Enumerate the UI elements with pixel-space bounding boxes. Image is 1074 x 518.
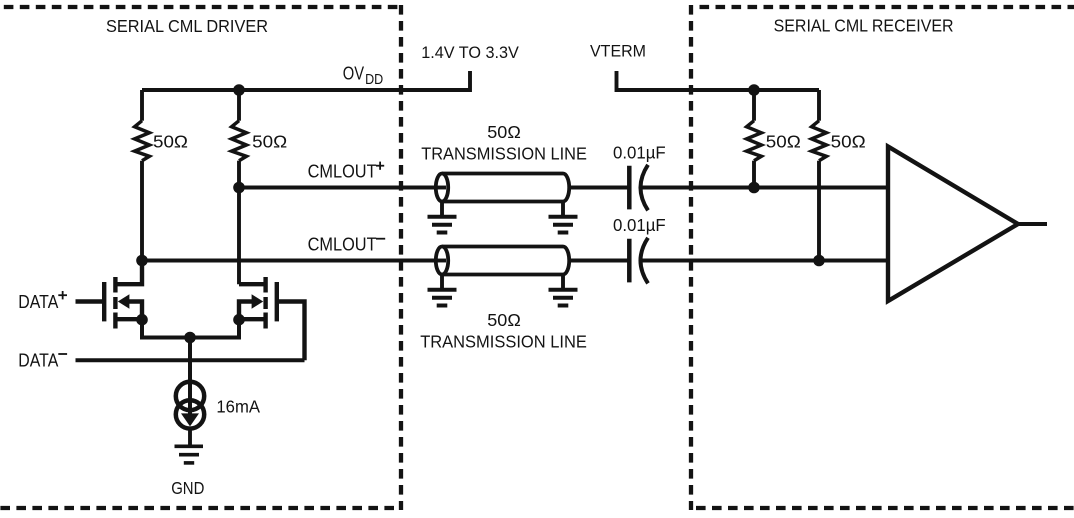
ground GND: [175, 446, 204, 463]
label OVDD: [343, 63, 383, 89]
svg-text:GND: GND: [171, 478, 204, 498]
resistor R2 50Ω: [237, 90, 241, 121]
current source I1: [176, 382, 204, 429]
svg-text:16mA: 16mA: [216, 397, 260, 417]
ground T2 right: [561, 275, 565, 289]
Q2 source lead: [239, 317, 266, 321]
svg-text:SERIAL CML RECEIVER: SERIAL CML RECEIVER: [774, 16, 954, 36]
wire VTERM rail: [617, 71, 820, 90]
driver box border: [0, 5, 401, 510]
capacitor C1 0.01µF: [627, 166, 632, 210]
Q2 gate lead: [277, 302, 305, 361]
wire common source to current sink: [188, 338, 192, 414]
wire DATA+: [76, 299, 105, 303]
op-amp U1 receiver amplifier: [888, 147, 1018, 302]
svg-text:DATA: DATA: [18, 292, 58, 312]
Q2 drain lead: [239, 282, 266, 286]
svg-text:TRANSMISSION LINE: TRANSMISSION LINE: [420, 332, 587, 352]
svg-text:0.01µF: 0.01µF: [613, 143, 666, 163]
capacitor C2 0.01µF: [627, 239, 632, 283]
Q2 channel segments: [263, 277, 267, 293]
wire source bus: [142, 320, 239, 338]
node OVDD/R2 junction: [233, 84, 245, 96]
resistor R4 50Ω: [817, 90, 821, 121]
ground T1 left: [440, 202, 444, 216]
Q2 body arrow: [252, 294, 264, 308]
node VTERM/R3 junction: [748, 84, 760, 96]
current source arrow head: [181, 413, 199, 426]
node Q2 source/body junction: [233, 314, 245, 326]
wire CMLOUT−: [142, 259, 436, 263]
node R1/CMLOUT−/Q1 drain junction: [136, 255, 148, 267]
svg-text:50Ω: 50Ω: [487, 310, 521, 330]
wire output: [1018, 222, 1047, 226]
svg-text:50Ω: 50Ω: [766, 132, 801, 152]
transmission line T1: [436, 174, 569, 202]
transistor Q2: [239, 277, 305, 360]
svg-text:0.01µF: 0.01µF: [613, 215, 666, 235]
svg-text:DD: DD: [365, 72, 383, 88]
svg-text:VTERM: VTERM: [590, 42, 646, 61]
node R3/CMLOUT+ junction: [748, 182, 760, 194]
svg-text:50Ω: 50Ω: [252, 132, 287, 152]
svg-text:CMLOUT: CMLOUT: [308, 162, 377, 182]
ground T1 right: [561, 202, 565, 216]
svg-text:50Ω: 50Ω: [831, 132, 866, 152]
node R4/CMLOUT− junction: [813, 255, 825, 267]
svg-text:50Ω: 50Ω: [487, 122, 521, 142]
wire stub into T2 left ellipse: [436, 259, 446, 263]
transmission line T2: [436, 247, 569, 275]
Q1 drain lead: [115, 261, 142, 285]
svg-text:CMLOUT: CMLOUT: [308, 234, 377, 254]
svg-text:1.4V TO 3.3V: 1.4V TO 3.3V: [421, 43, 519, 62]
svg-text:TRANSMISSION LINE: TRANSMISSION LINE: [421, 143, 587, 163]
svg-text:50Ω: 50Ω: [153, 132, 188, 152]
Q1 body lead: [128, 302, 142, 321]
Q1 body arrow: [118, 294, 130, 308]
node common source: [184, 332, 196, 344]
wire DATA−: [76, 358, 305, 362]
label CMLOUT−: [308, 234, 377, 254]
wire CMLOUT+: [239, 186, 436, 190]
wire stub into T1 left ellipse: [436, 186, 446, 190]
svg-text:OV: OV: [343, 63, 365, 84]
wire current source to ground: [188, 431, 192, 447]
node R2/CMLOUT+ junction: [233, 182, 245, 194]
Q1 channel segments: [113, 277, 117, 293]
Q1 gate bar: [102, 282, 106, 321]
Q2 body lead: [239, 302, 253, 321]
wire OVDD rail: [142, 71, 470, 90]
node Q1 source/body junction: [136, 314, 148, 326]
svg-text:DATA: DATA: [18, 351, 58, 371]
wire R2 to Q2 drain: [237, 188, 241, 285]
resistor R3 50Ω: [752, 90, 756, 121]
ground T2 left: [440, 275, 444, 289]
Q1 source lead: [115, 317, 142, 321]
transistor Q1: [104, 261, 142, 329]
Q2 gate bar: [275, 282, 279, 321]
label CMLOUT+: [308, 162, 377, 182]
receiver box border: [691, 5, 1074, 510]
resistor R1 50Ω: [140, 90, 144, 121]
svg-text:SERIAL CML DRIVER: SERIAL CML DRIVER: [106, 16, 268, 36]
